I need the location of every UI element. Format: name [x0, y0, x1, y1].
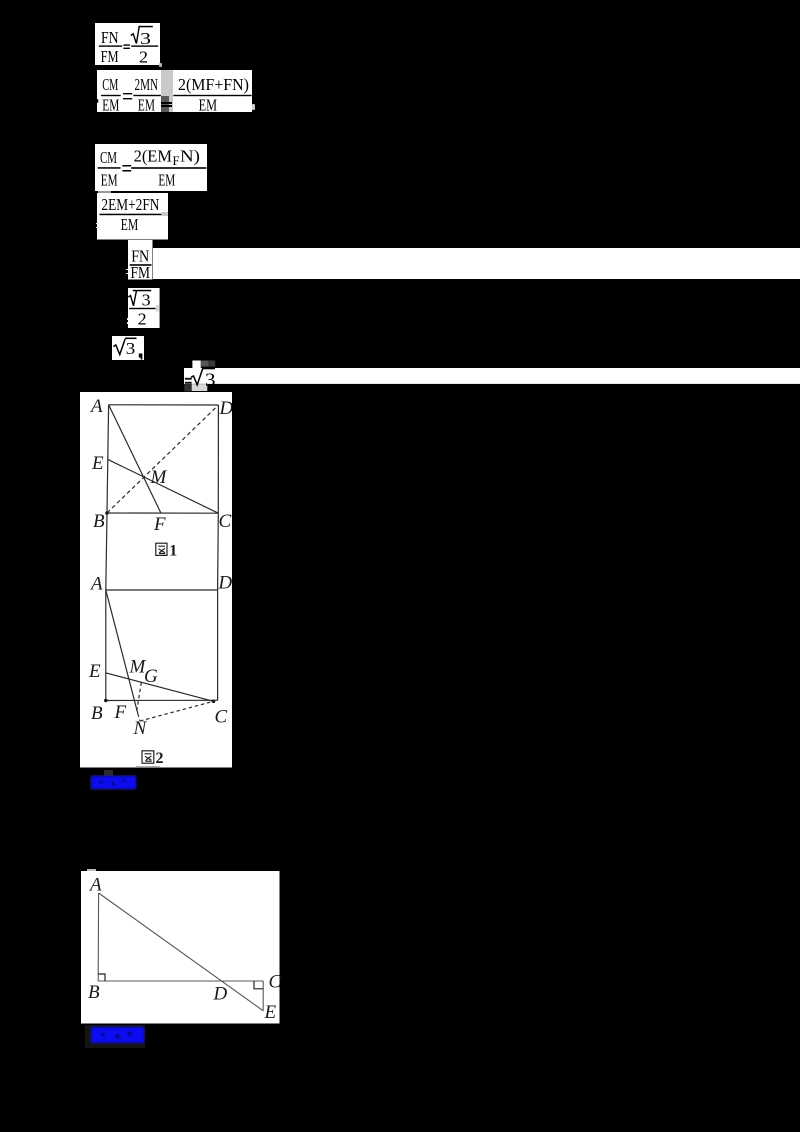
- svg-text:B: B: [91, 703, 103, 724]
- svg-text:C: C: [215, 707, 228, 728]
- svg-text:C: C: [269, 972, 281, 993]
- svg-text:2MN: 2MN: [134, 75, 158, 94]
- svg-text:2: 2: [156, 750, 164, 767]
- svg-text:B: B: [88, 982, 100, 1003]
- svg-text:FM: FM: [101, 47, 119, 65]
- svg-text:CM: CM: [102, 75, 118, 94]
- svg-text:B: B: [93, 511, 105, 532]
- svg-text:A: A: [88, 875, 102, 896]
- svg-text:3: 3: [140, 29, 151, 48]
- svg-text:EM: EM: [198, 96, 216, 112]
- svg-text:FN: FN: [101, 28, 119, 47]
- svg-text:2: 2: [138, 310, 147, 329]
- svg-text:EM: EM: [137, 96, 154, 112]
- svg-text:2: 2: [139, 47, 148, 65]
- svg-text:CM: CM: [100, 148, 117, 167]
- svg-text:C: C: [219, 511, 232, 532]
- svg-text:E: E: [91, 453, 104, 474]
- svg-text:3: 3: [142, 290, 151, 309]
- svg-text:1: 1: [169, 542, 177, 559]
- svg-text:EM: EM: [102, 96, 119, 112]
- svg-text:F: F: [114, 702, 127, 723]
- svg-text:N): N): [180, 147, 200, 166]
- svg-text:EM: EM: [101, 171, 118, 190]
- svg-text:D: D: [219, 398, 233, 419]
- svg-text:M: M: [150, 467, 168, 488]
- svg-text:G: G: [144, 666, 158, 687]
- svg-text:A: A: [89, 396, 103, 417]
- svg-text:EM: EM: [158, 171, 175, 190]
- svg-text:3: 3: [125, 339, 134, 358]
- svg-text:2EM+2FN: 2EM+2FN: [101, 195, 159, 214]
- svg-text:D: D: [213, 984, 228, 1005]
- svg-text:N: N: [133, 718, 148, 739]
- svg-text:F: F: [173, 153, 180, 168]
- svg-text:E: E: [88, 661, 101, 682]
- svg-text:A: A: [89, 574, 103, 595]
- svg-text:E: E: [264, 1002, 277, 1023]
- svg-text:FM: FM: [131, 263, 151, 280]
- svg-text:3: 3: [205, 369, 215, 390]
- svg-text:2(EM: 2(EM: [134, 147, 172, 166]
- svg-text:EM: EM: [120, 215, 138, 234]
- svg-text:F: F: [153, 514, 166, 535]
- svg-text:2(MF+FN): 2(MF+FN): [178, 75, 249, 94]
- svg-text:D: D: [217, 573, 232, 594]
